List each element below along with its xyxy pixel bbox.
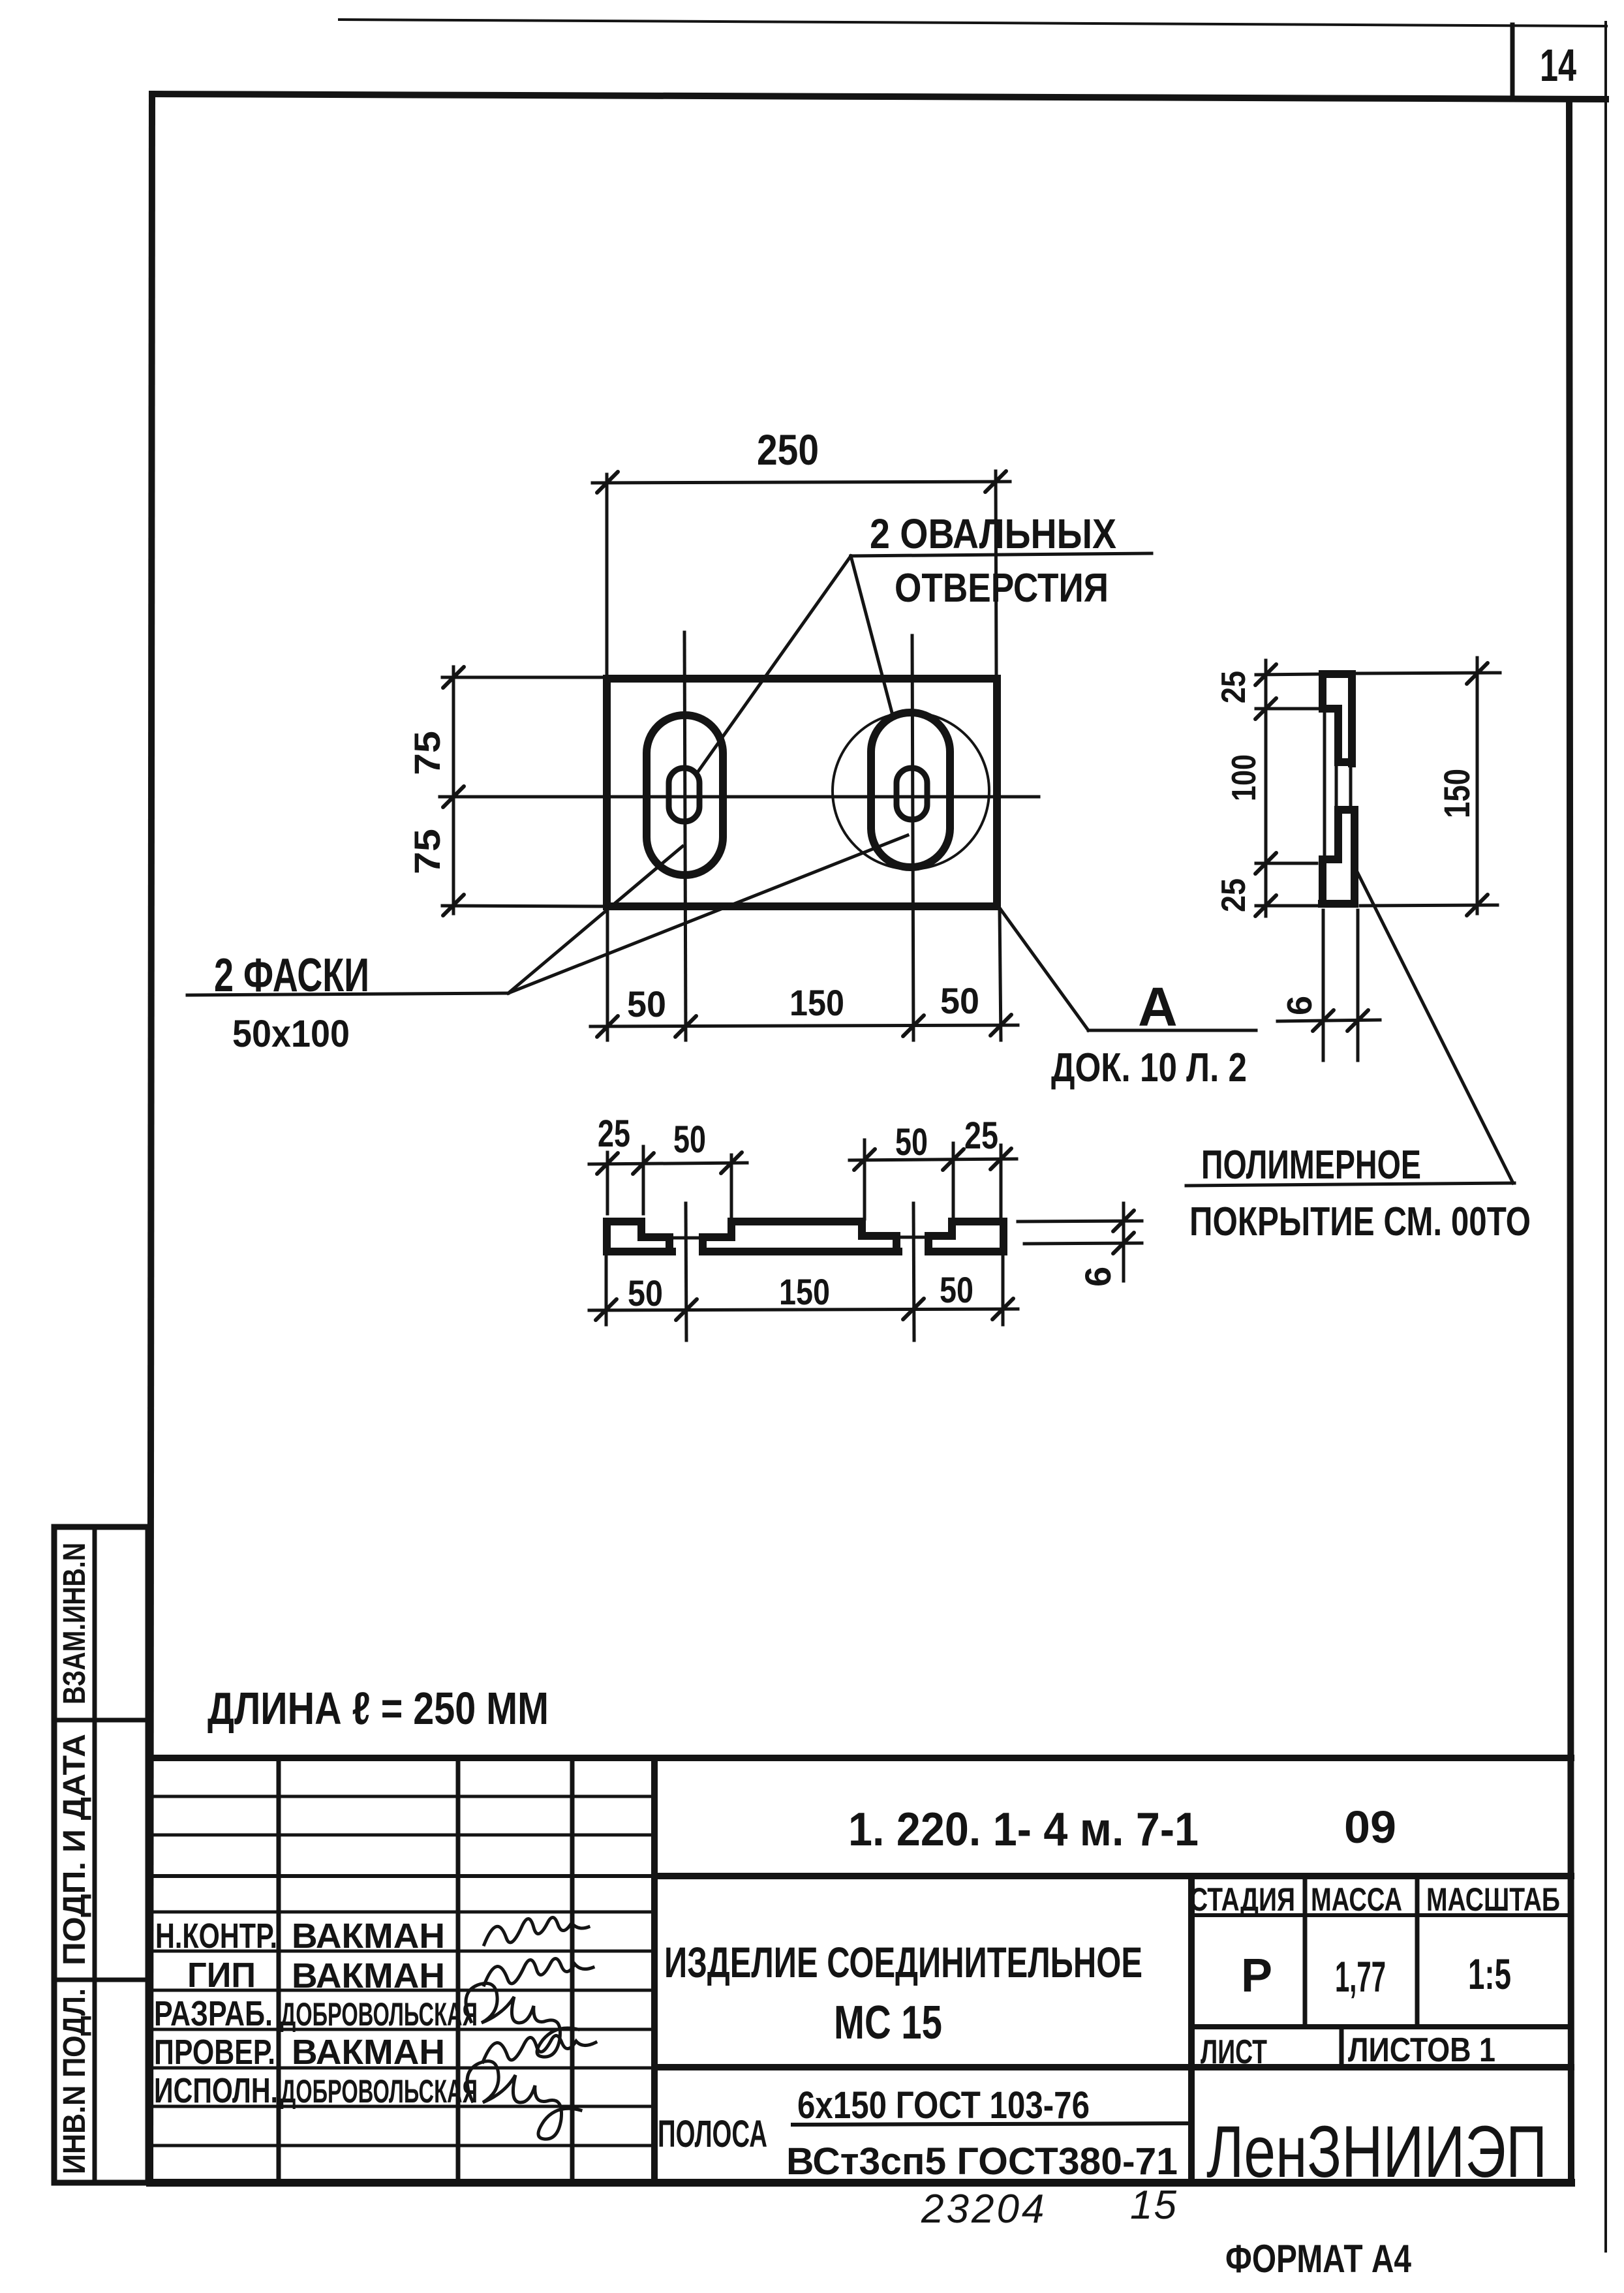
side profile lower middle — [1338, 810, 1355, 904]
dim 250 extension right — [996, 471, 996, 676]
titleblock top border — [150, 1755, 1571, 1761]
sec top dim ext 5 — [952, 1143, 955, 1227]
side profile hole thin edges — [1335, 763, 1338, 810]
svg-text:50: 50 — [627, 983, 666, 1024]
svg-text:ПОДП. И ДАТА: ПОДП. И ДАТА — [57, 1734, 92, 1965]
LEFT-MARGIN — [54, 1527, 148, 2183]
svg-text:ВАКМАН: ВАКМАН — [292, 2033, 445, 2072]
svg-text:50: 50 — [628, 1272, 663, 1314]
tick sec bottom 1 — [596, 1299, 617, 1320]
svg-text:75: 75 — [406, 829, 448, 874]
svg-text:ГИП: ГИП — [187, 1956, 256, 1995]
leader ovals arm right — [851, 556, 892, 713]
svg-text:ПОЛИМЕРНОЕ: ПОЛИМЕРНОЕ — [1201, 1143, 1421, 1188]
sec thickness ext bottom — [1024, 1243, 1142, 1244]
svg-text:ПОЛОСА: ПОЛОСА — [658, 2113, 767, 2155]
tick sec thickness bottom — [1113, 1233, 1134, 1254]
leader chamfer arm right — [508, 835, 908, 993]
NOTES — [207, 1143, 1531, 1734]
sec bottom dim line — [589, 1309, 1018, 1310]
svg-text:50: 50 — [940, 980, 979, 1021]
svg-text:Р: Р — [1241, 1950, 1272, 2002]
svg-text:ИСПОЛН.: ИСПОЛН. — [154, 2071, 278, 2110]
side dim 25-100-25 ext lines — [1256, 674, 1319, 675]
tick plan bottom 1 — [597, 1016, 618, 1037]
dim line 250 — [592, 482, 1010, 483]
svg-text:ВЗАМ.ИНВ.N: ВЗАМ.ИНВ.N — [57, 1543, 92, 1704]
left slot outer — [647, 715, 723, 875]
tick plan bottom 4 — [990, 1015, 1011, 1036]
right slot inner hole — [896, 768, 927, 820]
section centerline left — [686, 1203, 686, 1340]
margin box column divider — [93, 1527, 97, 2183]
sec top dim line left — [589, 1163, 747, 1164]
svg-text:ДОБРОВОЛЬСКАЯ: ДОБРОВОЛЬСКАЯ — [281, 2073, 478, 2110]
svg-text:150: 150 — [779, 1271, 830, 1312]
leader chamfer underline — [187, 993, 508, 995]
svg-text:6х150 ГОСТ 103-76: 6х150 ГОСТ 103-76 — [797, 2084, 1090, 2127]
svg-text:09: 09 — [1344, 1802, 1396, 1853]
frame top border — [152, 94, 1606, 99]
svg-text:СТАДИЯ: СТАДИЯ — [1189, 1881, 1295, 1918]
right slot outer — [871, 713, 950, 867]
dim 250 extension left — [605, 474, 609, 676]
svg-text:25: 25 — [1215, 878, 1253, 912]
tick plan bottom 3 — [903, 1015, 924, 1036]
svg-text:ДОК. 10 Л. 2: ДОК. 10 Л. 2 — [1051, 1045, 1247, 1090]
svg-text:1. 220. 1- 4 м. 7-1: 1. 220. 1- 4 м. 7-1 — [848, 1804, 1199, 1856]
stadia values bottom line — [1191, 2024, 1571, 2029]
left slot centerline — [684, 632, 686, 1040]
tick sec top R1 — [854, 1149, 875, 1170]
PLANVIEW — [187, 425, 1256, 1090]
stadia header row bottom line — [1191, 1913, 1571, 1917]
leader ovals underline — [851, 553, 1152, 556]
svg-text:50х100: 50х100 — [232, 1013, 350, 1055]
horizontal centerline — [440, 795, 1039, 799]
tick sec top R3 — [990, 1148, 1011, 1169]
svg-text:ВАКМАН: ВАКМАН — [292, 1956, 445, 1995]
SECTIONVIEW — [589, 1113, 1142, 1340]
sec thickness dim line — [1122, 1203, 1126, 1281]
right section thick divider — [1188, 1876, 1195, 2183]
svg-text:ОТВЕРСТИЯ: ОТВЕРСТИЯ — [895, 566, 1109, 611]
side dim line 25-100-25 — [1264, 660, 1268, 916]
svg-text:1,77: 1,77 — [1335, 1952, 1386, 2001]
svg-text:ЛИСТ: ЛИСТ — [1201, 2033, 1267, 2071]
side profile bottom cap — [1322, 859, 1355, 904]
right slot centerline — [912, 636, 913, 1040]
plan bottom dim line — [590, 1025, 1018, 1026]
signature Вакман 3 — [483, 2035, 596, 2062]
side profile upper middle — [1338, 709, 1352, 762]
tick sec bottom 2 — [676, 1299, 697, 1320]
tick sec bottom 3 — [903, 1299, 924, 1319]
margin boxes outline — [54, 1527, 148, 2183]
section left end — [607, 1222, 672, 1252]
svg-text:ПОКРЫТИЕ СМ. 00ТО: ПОКРЫТИЕ СМ. 00ТО — [1189, 1199, 1531, 1244]
svg-text:23204: 23204 — [921, 2187, 1047, 2232]
section middle block — [703, 1222, 898, 1252]
svg-text:Н.КОНТР.: Н.КОНТР. — [155, 1916, 277, 1956]
svg-text:ИЗДЕЛИЕ СОЕДИНИТЕЛЬНОЕ: ИЗДЕЛИЕ СОЕДИНИТЕЛЬНОЕ — [664, 1938, 1142, 1986]
tick 75 bottom — [443, 895, 464, 916]
tick sec thickness top — [1113, 1210, 1134, 1231]
sec top dim ext 1 — [606, 1152, 609, 1214]
tick sec top R2 — [943, 1149, 964, 1170]
svg-text:6: 6 — [1077, 1267, 1118, 1287]
section centerline right — [913, 1203, 914, 1340]
лист divider — [1340, 2027, 1344, 2067]
svg-text:А: А — [1138, 976, 1178, 1038]
tick side 150 top — [1467, 663, 1488, 684]
svg-text:ВСт3сп5 ГОСТ380-71: ВСт3сп5 ГОСТ380-71 — [786, 2140, 1178, 2183]
tick 250 left — [597, 472, 618, 493]
signature grid row lines — [150, 1795, 654, 1798]
left slot inner hole — [669, 768, 699, 822]
side dim line 150 — [1476, 658, 1479, 914]
svg-text:ЛИСТОВ 1: ЛИСТОВ 1 — [1348, 2031, 1495, 2069]
svg-text:1:5: 1:5 — [1468, 1950, 1511, 1998]
svg-text:2 ОВАЛЬНЫХ: 2 ОВАЛЬНЫХ — [870, 510, 1116, 557]
tick sec top L1 — [597, 1153, 618, 1174]
signature Добровольская 1 — [466, 1983, 578, 2057]
dim line 75-75 — [452, 667, 455, 914]
svg-text:МС 15: МС 15 — [834, 1997, 942, 2049]
sec top dim ext 3 — [730, 1155, 733, 1219]
leader chamfer arm left — [508, 846, 682, 993]
tick sec top L2 — [633, 1153, 654, 1174]
svg-text:РАЗРАБ.: РАЗРАБ. — [154, 1994, 273, 2033]
svg-text:50: 50 — [940, 1269, 973, 1310]
polymer leader diagonal — [1357, 872, 1513, 1183]
detail circle A — [833, 713, 989, 869]
sec top dim line right — [850, 1159, 1017, 1160]
side profile far edge thin — [1323, 711, 1326, 858]
tick side 150 bottom — [1467, 895, 1488, 916]
signature Вакман 1 — [484, 1917, 589, 1945]
tick sec top L3 — [721, 1152, 742, 1173]
svg-text:МАСШТАБ: МАСШТАБ — [1426, 1881, 1560, 1918]
tick 250 right — [985, 471, 1006, 492]
tick 75 mid — [443, 786, 464, 807]
signature Вакман 2 — [484, 1958, 593, 1985]
header column divider 1 — [1303, 1876, 1308, 2027]
svg-text:25: 25 — [1215, 671, 1253, 703]
section hole gap left thin — [669, 1237, 703, 1240]
side width dim ext left — [1322, 910, 1325, 1060]
svg-text:ДОБРОВОЛЬСКАЯ: ДОБРОВОЛЬСКАЯ — [281, 1996, 478, 2033]
svg-text:150: 150 — [789, 982, 844, 1023]
tick side 4 — [1255, 895, 1276, 916]
dim 75 extension top — [442, 676, 607, 679]
tick side 1 — [1255, 664, 1276, 685]
svg-text:ИНВ.N ПОДЛ.: ИНВ.N ПОДЛ. — [57, 1988, 92, 2174]
svg-text:14: 14 — [1540, 40, 1576, 91]
svg-text:ДЛИНА ℓ = 250 ММ: ДЛИНА ℓ = 250 ММ — [207, 1683, 549, 1734]
svg-text:ВАКМАН: ВАКМАН — [292, 1916, 445, 1956]
svg-text:6: 6 — [1280, 996, 1319, 1015]
svg-text:75: 75 — [406, 731, 448, 775]
svg-text:ЛенЗНИИЭП: ЛенЗНИИЭП — [1206, 2111, 1547, 2193]
tick plan bottom 2 — [675, 1016, 696, 1037]
plate outline — [607, 679, 997, 906]
section hole gap right thin — [898, 1236, 928, 1239]
dim 75 extension bottom — [442, 906, 607, 906]
signature Добровольская 2 — [467, 2061, 581, 2140]
svg-text:50: 50 — [895, 1121, 928, 1163]
frame right border — [1569, 99, 1571, 2183]
tick side width R — [1347, 1010, 1368, 1031]
TITLEBLOCK — [150, 1758, 1571, 2281]
svg-text:250: 250 — [757, 425, 819, 474]
sec top dim ext 2 — [642, 1146, 645, 1214]
sec bottom ext left — [605, 1255, 608, 1325]
tick side 3 — [1255, 853, 1276, 874]
divider below name cell — [654, 2064, 1571, 2070]
signature column dividers — [277, 1758, 281, 2183]
titleblock thick divider left section — [651, 1758, 658, 2183]
margin box divider 1 — [54, 1718, 148, 1723]
side dim 150 ext bottom — [1360, 905, 1497, 906]
sec thickness ext top — [1018, 1221, 1142, 1222]
svg-text:50: 50 — [673, 1118, 706, 1161]
sec bottom ext right — [1002, 1255, 1005, 1325]
frame left border — [150, 94, 152, 2183]
svg-text:ПРОВЕР.: ПРОВЕР. — [154, 2033, 275, 2072]
tick 75 top — [443, 667, 464, 688]
paper top edge — [339, 20, 1606, 26]
svg-text:100: 100 — [1225, 754, 1263, 801]
side width dim line — [1278, 1020, 1380, 1021]
margin box divider 2 — [54, 1978, 148, 1982]
svg-text:25: 25 — [598, 1113, 630, 1155]
sec top dim ext 6 — [1000, 1145, 1003, 1219]
sec top dim ext 4 — [863, 1140, 866, 1219]
svg-text:25: 25 — [964, 1115, 998, 1157]
tick side 2 — [1255, 698, 1276, 719]
material fraction bar — [793, 2123, 1191, 2125]
side profile top cap — [1323, 674, 1352, 763]
page number box — [1510, 25, 1515, 98]
svg-text:ФОРМАТ А4: ФОРМАТ А4 — [1225, 2237, 1412, 2281]
svg-text:150: 150 — [1436, 769, 1477, 818]
tick side width L — [1313, 1010, 1334, 1031]
side width dim ext right — [1356, 910, 1360, 1060]
svg-text:МАССА: МАССА — [1311, 1881, 1402, 1918]
section right end — [928, 1222, 1004, 1252]
detail leader underline — [1088, 1029, 1256, 1032]
svg-text:15: 15 — [1130, 2183, 1178, 2228]
plan bottom dim extension left — [606, 910, 609, 1040]
leader ovals arm left — [697, 556, 851, 773]
frame bottom border — [150, 2179, 1571, 2187]
polymer note underline — [1186, 1183, 1514, 1186]
SIDEVIEW — [1215, 658, 1513, 1183]
detail leader diagonal — [999, 907, 1088, 1030]
side dim 150 ext top — [1357, 673, 1500, 673]
tick sec bottom 4 — [992, 1299, 1013, 1319]
plan bottom dim extension right — [1000, 910, 1001, 1040]
paper right edge — [1604, 22, 1607, 2251]
header column divider 2 — [1415, 1876, 1420, 2027]
middle section divider below designation — [654, 1873, 1571, 1879]
